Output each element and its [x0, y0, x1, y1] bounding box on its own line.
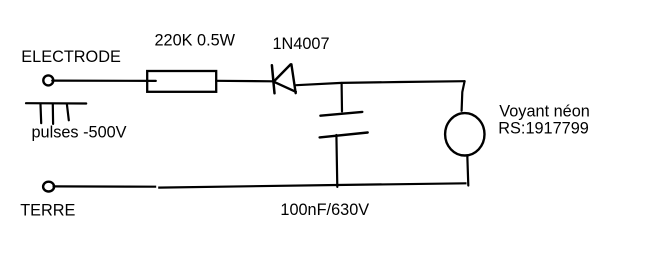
diode D1 1N4007	[272, 64, 296, 93]
pulse source tick 1	[39, 104, 42, 123]
wire bottom rail left segment from TERRE	[53, 185, 157, 188]
resistor R1 220K 0.5W	[147, 71, 216, 92]
svg-text:ELECTRODE: ELECTRODE	[21, 48, 121, 66]
svg-text:220K 0.5W: 220K 0.5W	[155, 32, 236, 50]
capacitor C1 bottom lead	[335, 135, 338, 187]
svg-text:pulses -500V: pulses -500V	[32, 123, 127, 141]
capacitor C1 top lead	[341, 83, 344, 111]
svg-text:100nF/630V: 100nF/630V	[280, 201, 369, 219]
wire diode to top-right corner (top rail), junction at capacitor	[296, 81, 464, 85]
svg-text:TERRE: TERRE	[20, 201, 75, 219]
neon lamp LP1	[445, 113, 484, 155]
terminal ELECTRODE	[43, 75, 53, 85]
wire bottom rail right segment to lamp corner	[158, 183, 466, 187]
wire neon lamp to bottom rail	[467, 155, 468, 185]
wire electrode to resistor R1	[52, 79, 156, 82]
svg-text:1N4007: 1N4007	[273, 35, 330, 53]
wire corner down to neon lamp	[462, 81, 465, 111]
svg-text:Voyant néon: Voyant néon	[499, 102, 590, 120]
pulse source tick 3	[67, 104, 69, 120]
pulse source symbol bar	[26, 102, 86, 105]
wire resistor to diode D1	[216, 80, 273, 83]
capacitor C1 bottom plate	[320, 133, 368, 138]
terminal TERRE	[43, 182, 54, 192]
pulse source tick 2	[52, 104, 54, 124]
svg-text:RS:1917799: RS:1917799	[498, 120, 589, 138]
capacitor C1 top plate	[320, 112, 362, 116]
